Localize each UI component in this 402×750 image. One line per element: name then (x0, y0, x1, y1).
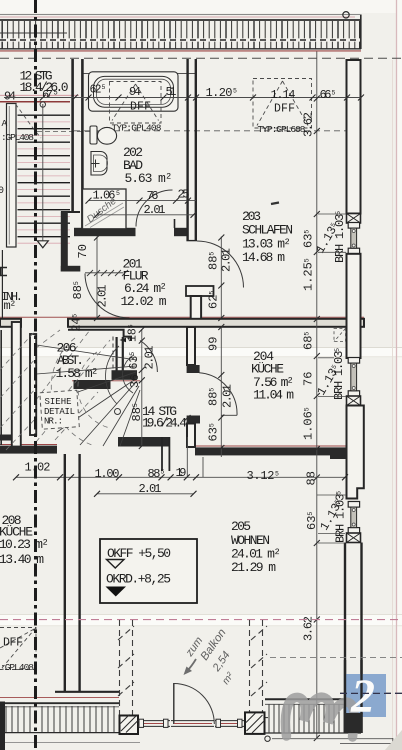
stair hidden edge dashed (112, 337, 114, 371)
flur entry door arc (85, 274, 130, 319)
svg-text:5: 5 (54, 90, 58, 98)
svg-text:TYP:GPL408: TYP:GPL408 (112, 123, 162, 134)
watermark gray m (285, 697, 354, 737)
winder stair solid arcs (123, 355, 134, 393)
window sill under door (171, 721, 214, 727)
bathtub inner line (97, 79, 171, 104)
balcony dashed line across (0, 619, 402, 621)
roof band mid line left (0, 32, 67, 34)
wall stair/bath divider west leaf (71, 59, 74, 212)
dashed line right mid (270, 657, 402, 659)
DFF dashed box over tub (110, 82, 162, 124)
abst left lower stub (0, 435, 11, 441)
OKFF open triangle (107, 560, 125, 569)
svg-text:66: 66 (320, 88, 332, 102)
svg-text:76: 76 (302, 372, 316, 386)
stair dashed guide diagonal (16, 104, 42, 138)
svg-text:1.20: 1.20 (206, 86, 233, 100)
stair lower-left bar (74, 380, 111, 389)
svg-text:2.01: 2.01 (220, 248, 234, 272)
ridge dashed line (0, 57, 402, 59)
red line above main cross wall (0, 316, 364, 318)
handwritten arrow to balcony door (187, 659, 196, 671)
pink scan line right edge (396, 0, 398, 750)
svg-text:BRH 1.035: BRH 1.035 (334, 491, 348, 543)
east wall X-box 3 (347, 533, 361, 543)
svg-text:DETAIL: DETAIL (44, 407, 75, 417)
sill right of pier (264, 717, 268, 719)
svg-text:OKRD.+8,25: OKRD.+8,25 (106, 572, 171, 587)
svg-text:1.255: 1.255 (302, 258, 316, 291)
svg-text:BRH 1.035: BRH 1.035 (333, 211, 347, 263)
kueche west wall upper (187, 327, 195, 365)
svg-text:2.01: 2.01 (96, 285, 110, 308)
bottom external stair band right (265, 699, 361, 733)
svg-text:DFF: DFF (3, 637, 23, 650)
svg-text:21.29 m: 21.29 m (231, 560, 276, 575)
watermark blue square (346, 674, 386, 717)
roof band right closure (360, 15, 362, 50)
kitchen corner connector line (202, 457, 204, 477)
left stair handrail rectangle (7, 104, 17, 248)
svg-text:11.04 m: 11.04 m (253, 388, 294, 403)
svg-text:SIEHE: SIEHE (45, 397, 72, 407)
svg-text:14.68 m: 14.68 m (242, 250, 285, 265)
shower diagonals (85, 203, 124, 228)
east outer wall kueche lower (347, 406, 364, 499)
svg-text:13.40 m: 13.40 m (0, 552, 44, 567)
toilet bowl (97, 127, 116, 144)
svg-text:m²: m² (4, 299, 17, 313)
east outer wall mid (schlafen-kueche) (347, 254, 361, 358)
stair head door arc (140, 341, 157, 373)
svg-text:10.23 m²: 10.23 m² (0, 537, 49, 552)
red sill centre lines (142, 723, 240, 725)
svg-text:36: 36 (129, 374, 142, 388)
stair bottom bar (118, 437, 170, 447)
svg-text:1.00: 1.00 (95, 467, 120, 481)
window wohnen east (348, 502, 359, 534)
flur west wall stub (61, 266, 81, 272)
roof band pink line (0, 16, 355, 18)
roof band hatching (2, 21, 360, 49)
svg-text:99: 99 (207, 337, 221, 351)
stair corridor connector line (186, 437, 188, 477)
dashed line over square (340, 692, 402, 694)
bath door arc (136, 190, 173, 227)
svg-text:19.6/24.4: 19.6/24.4 (142, 416, 187, 431)
svg-text:5: 5 (275, 470, 279, 477)
SIEHE DETAIL box (40, 390, 79, 429)
wall stair/bath divider east leaf (81, 59, 84, 230)
roof edge band top: thin top line (0, 14, 360, 16)
svg-text:5: 5 (233, 88, 237, 95)
roof band upper dark line (0, 19, 361, 21)
svg-text:SCHLAFEN: SCHLAFEN (242, 223, 293, 238)
bath bottom dim line 1 (89, 200, 197, 202)
survey circle top right (343, 12, 349, 18)
schlafen door jamb pier (186, 286, 214, 296)
bottom left dark corner bar (0, 702, 5, 750)
bathtub inner (94, 76, 174, 107)
svg-text:205: 205 (231, 519, 251, 534)
abst bottom wall (0, 446, 57, 454)
abst west wall (12, 322, 21, 450)
svg-text:2: 2 (350, 670, 375, 723)
svg-text:3.12: 3.12 (247, 469, 275, 483)
sink tap cross (92, 160, 100, 168)
svg-text:0: 0 (0, 186, 4, 197)
bottom right guide lines (272, 738, 393, 740)
bottom hatched walkway band left (2, 703, 119, 732)
window schlafen east (348, 223, 359, 254)
top dimension chain line (4, 97, 361, 99)
svg-text:BRH 1.035: BRH 1.035 (332, 348, 346, 400)
stair dim walk circle (115, 409, 121, 415)
red line bottom left facade (0, 697, 119, 699)
svg-text::GPL408: :GPL408 (1, 132, 34, 143)
svg-text:OKFF +5,50: OKFF +5,50 (107, 546, 171, 561)
kueche west wall lower (187, 416, 200, 424)
abst dashed circle arcs (78, 352, 110, 428)
svg-text:94: 94 (4, 90, 16, 104)
shower tray (83, 189, 127, 229)
wall-to-dim connector lines (317, 214, 346, 543)
roof band thicker joists (2, 21, 338, 49)
winder stair fan treads (37, 345, 141, 446)
east wall X-box 2 (347, 396, 361, 406)
svg-text:A: A (2, 118, 8, 129)
bath bottom wall (74, 228, 136, 236)
roof band red eave line (0, 50, 361, 52)
small DFF marker kueche (334, 329, 346, 342)
balcony pier right dashed (250, 620, 268, 714)
flur entry door leaf hatched (85, 270, 128, 276)
svg-text:2.01: 2.01 (143, 346, 157, 370)
svg-text:70: 70 (76, 244, 90, 258)
sink (91, 152, 107, 176)
bottom dim line 2.01 (97, 493, 194, 495)
svg-text:5.63 m²: 5.63 m² (125, 171, 173, 186)
window kueche east (348, 358, 359, 397)
svg-text:5: 5 (116, 190, 120, 197)
kueche bottom wall (195, 447, 347, 455)
1m roof height dashed line (74, 130, 347, 132)
svg-text:5: 5 (102, 84, 106, 91)
sink inner (94, 155, 108, 172)
flur pier top connector (61, 211, 80, 213)
unit wall 208 east leaf (78, 454, 80, 692)
svg-text:1.02: 1.02 (25, 461, 51, 475)
left boundary thin line (mid) (1, 250, 3, 318)
main cross wall left segment (0, 319, 21, 327)
roof band bottom line (0, 48, 361, 50)
svg-text:1.14: 1.14 (271, 88, 296, 102)
stair head wall verticals (115, 337, 117, 371)
svg-text:2.01: 2.01 (221, 384, 235, 408)
svg-text:2.01: 2.01 (144, 203, 166, 217)
schlafen ceiling speck marks (271, 203, 279, 205)
svg-text:25: 25 (178, 187, 190, 201)
svg-text:76: 76 (147, 189, 159, 203)
schlafen west dim line (220, 237, 222, 319)
svg-text:12.02 m: 12.02 m (121, 294, 167, 309)
dark red stair landing line (0, 101, 70, 103)
bath top boundary line (84, 72, 197, 74)
svg-text:88: 88 (148, 467, 161, 481)
svg-text:94: 94 (129, 85, 141, 99)
east outer wall wohnen (long) (345, 543, 362, 715)
stair head dim line (141, 329, 143, 446)
DFF dashed (208, bottom left) (0, 628, 36, 670)
fold band 2 (0, 614, 402, 626)
schlafen door arc (197, 241, 244, 288)
stair walk line start circle (40, 102, 45, 107)
right dimension chain vertical (316, 52, 318, 739)
fold band 1 (0, 347, 402, 357)
svg-text:TYP:GPL608: TYP:GPL608 (258, 124, 306, 135)
OKRD filled triangle (106, 587, 127, 597)
left boundary line (edge) (0, 330, 2, 445)
east wall lines over watermark (344, 660, 346, 714)
svg-text:2.01: 2.01 (139, 482, 162, 496)
stair mid bar (112, 370, 138, 380)
bath/schlafen wall west leaf (186, 59, 188, 240)
stair walk line end arrow (37, 241, 48, 248)
east outer wall upper (schlafen) (347, 60, 361, 214)
bath/schlafen wall east leaf (195, 59, 197, 240)
wohnen bottom facade line left (55, 691, 119, 693)
kueche west dim line (220, 327, 222, 457)
bottom dim chain line (16, 476, 345, 478)
window sill right of door (215, 719, 244, 727)
schlafen wall end cap (186, 240, 197, 242)
hatched pier box left (120, 715, 139, 735)
svg-text:67: 67 (42, 88, 53, 102)
abst dashed flight lines (0, 330, 110, 450)
OKFF annotation box (100, 539, 197, 603)
pink line under stair labels (0, 94, 79, 96)
hatched pier box right (245, 712, 265, 734)
scan shadow bottom right corner (385, 730, 402, 750)
bath bottom dim line 2 (97, 214, 194, 216)
svg-text:5: 5 (332, 90, 336, 97)
svg-text:DFF: DFF (274, 103, 295, 116)
svg-text:5: 5 (161, 469, 165, 476)
small wall bracket left edge (1, 268, 7, 276)
red line above stair mid bar (72, 380, 140, 382)
stair walk line vertical (42, 104, 44, 246)
dashed line bottom right dark (340, 692, 402, 694)
stair head dim arrow (120, 338, 127, 342)
svg-text:1.06: 1.06 (93, 189, 116, 203)
front door leaf (173, 683, 175, 724)
svg-text:NR.:: NR.: (44, 417, 63, 427)
tub dim line (89, 97, 197, 99)
bathtub platform (89, 72, 179, 111)
svg-text::GPL408: :GPL408 (0, 662, 34, 673)
dashed leader to toilet (37, 131, 98, 133)
bath bottom wall right jamb (174, 228, 187, 236)
svg-text:1.58 m²: 1.58 m² (56, 366, 99, 381)
svg-text:62: 62 (90, 84, 102, 97)
DFF dashed box schlafen (253, 79, 312, 129)
svg-text:DFF: DFF (130, 101, 151, 114)
toilet tank (90, 126, 97, 144)
abst east wall (30, 334, 36, 435)
front door arc (174, 684, 215, 725)
svg-text:19: 19 (176, 466, 187, 480)
left stair: pink mid lines (18, 122, 71, 243)
stair band circle (265, 736, 270, 741)
red line above kitchen bottom wall (195, 445, 347, 447)
window sill left of door (138, 719, 170, 727)
top dim ticks (40, 95, 364, 101)
left stair treads (18, 115, 71, 237)
east wall corner block kueche bottom (330, 448, 347, 460)
stair head stepped wall edge (68, 330, 131, 341)
balcony pier left dashed (118, 620, 134, 716)
stair bottom corridor wall (161, 437, 163, 471)
flur/kueche west wall upper (191, 296, 201, 319)
flur west wall lower pier (61, 212, 68, 272)
main cross wall (schlafen bottom) (68, 319, 364, 327)
east wall wohnen solid foot (344, 713, 363, 733)
unit wall 208 west leaf (64, 454, 66, 692)
flur west dim line (96, 237, 98, 319)
kueche door arc (199, 373, 237, 416)
east wall X-box 1 (347, 214, 361, 224)
svg-text:51: 51 (166, 85, 177, 99)
svg-text:88: 88 (305, 471, 319, 485)
section cut dash-dot line (bold) (34, 0, 37, 750)
red line above abst bottom wall (0, 444, 57, 446)
dim tick after 19.6/24. (184, 415, 191, 422)
roof band dashed centre line (0, 38, 360, 41)
right dim ticks (314, 96, 320, 742)
svg-text:1.065: 1.065 (302, 407, 316, 440)
svg-text:3.62: 3.62 (302, 112, 316, 137)
bottom right corner vertical (392, 738, 394, 750)
